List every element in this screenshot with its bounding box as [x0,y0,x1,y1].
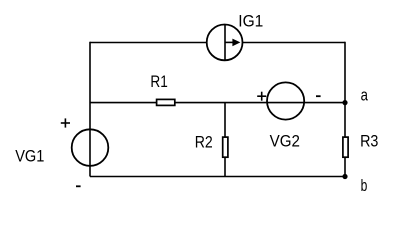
resistor R1 (body) [157,99,175,105]
wire: R2 vertical branch [224,103,226,177]
wire: top rail left segment (top-left corner to IG1) [90,42,207,44]
resistor R3 (body) [343,137,348,157]
current source IG1 arrow [225,39,240,47]
VG1 plus polarity mark [61,118,70,127]
wire: left vertical branch through VG1 [89,42,91,177]
voltage source VG1 (circle body) [72,129,109,166]
voltage source VG2 (circle body) [267,82,304,119]
current source IG1 vertical bar [224,25,226,61]
wire: middle horizontal rail through R1 and VG2 to node a [90,102,345,104]
junction dot at node b [342,174,347,179]
svg-text:VG1: VG1 [15,147,44,165]
current source IG1 (circle body) [207,25,243,61]
resistor R2 (body) [223,137,228,157]
svg-text:R3: R3 [360,132,378,150]
VG2 plus polarity mark [257,92,266,101]
junction dot at node a [342,100,347,105]
wire: right vertical branch through R3 [344,42,346,177]
svg-text:IG1: IG1 [238,13,263,31]
wire: bottom rail to node b [90,176,345,178]
wire: top rail right segment (IG1 to top-right corner) [242,42,345,44]
svg-text:R2: R2 [195,134,213,152]
svg-text:a: a [361,86,368,104]
VG2 minus polarity mark [316,95,321,97]
svg-text:b: b [361,177,368,195]
svg-text:VG2: VG2 [270,132,300,150]
VG1 minus polarity mark [76,185,81,187]
svg-text:R1: R1 [150,73,167,91]
